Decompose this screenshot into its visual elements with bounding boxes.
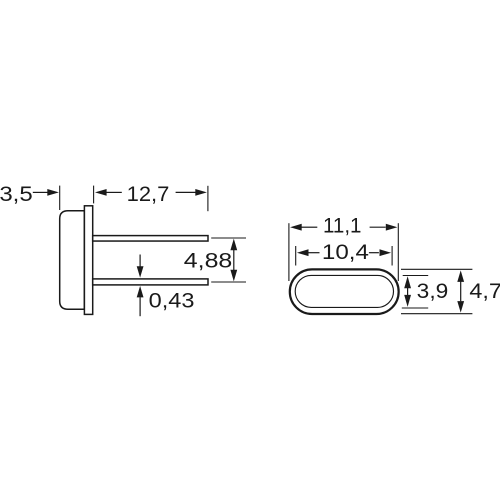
extension line top lead center [211,237,246,239]
dimension 10,4 left arrowhead [297,249,309,256]
extension line capsule inner top right side [403,275,429,277]
dimension 4,88 up arrowhead [230,239,237,251]
svg-text:3,5: 3,5 [0,181,33,206]
dimension 4,88 down arrowhead [230,270,237,282]
extension line capsule inner right [391,246,393,266]
extension line at lead end [207,186,209,211]
dimension 3,5 arrowhead [47,189,59,196]
extension line bottom lead center [211,281,246,283]
extension line capsule outer bottom right side [401,313,472,315]
dimension 0,43 lower arrow shaft [139,297,141,316]
extension line capsule outer top right side [401,268,472,270]
dimension 12,7 right line [176,191,196,193]
svg-text:4,88: 4,88 [184,248,233,273]
svg-text:12,7: 12,7 [127,181,170,206]
base plate (side view) [84,206,92,315]
dimension 12,7 left line [106,191,121,193]
dimension 10,4 right line [369,252,379,254]
dimension 3,9 down arrowhead [404,295,411,307]
top lead [93,236,208,241]
dimension 3,9 shaft [407,288,409,295]
extension line capsule inner left [295,246,297,266]
svg-text:10,4: 10,4 [322,239,369,264]
bottom lead [93,279,208,285]
dimension 4,7 down arrowhead [457,301,464,313]
dimension 0,43 upper arrowhead pointing down [137,266,144,277]
dimension 3,5 leader line [33,191,48,193]
dimension 11,1 left line [302,226,318,228]
svg-text:3,9: 3,9 [417,278,449,303]
extension line capsule outer right [397,223,399,281]
dimension 4,7 shaft [460,282,462,302]
dimension 11,1 right arrowhead [386,224,398,231]
dimension 4,88 vertical line [233,250,235,271]
dimension 11,1 left arrowhead [290,224,302,231]
dimension 12,7 right arrowhead [195,189,207,196]
crystal can body (side view) [60,211,85,310]
dimension 10,4 right arrowhead [380,249,392,256]
extension line left of body [59,186,61,210]
extension line capsule inner bottom right side [402,307,428,309]
svg-text:4,7: 4,7 [469,278,500,303]
outer capsule (top view) [290,269,399,314]
dimension 4,7 up arrowhead [457,270,464,282]
svg-text:11,1: 11,1 [323,212,362,237]
svg-text:0,43: 0,43 [149,287,195,312]
dimension 12,7 left arrowhead [95,189,107,196]
extension line capsule outer left [288,223,290,281]
dimension 0,43 upper arrow shaft [139,255,141,268]
dimension 0,43 lower arrowhead pointing up [137,286,144,298]
dimension 10,4 left line [308,252,319,254]
inner capsule (top view) [295,275,393,307]
extension line at base plate right [93,186,95,204]
dimension 3,9 up arrowhead [404,276,411,288]
dimension 11,1 right line [370,226,386,228]
